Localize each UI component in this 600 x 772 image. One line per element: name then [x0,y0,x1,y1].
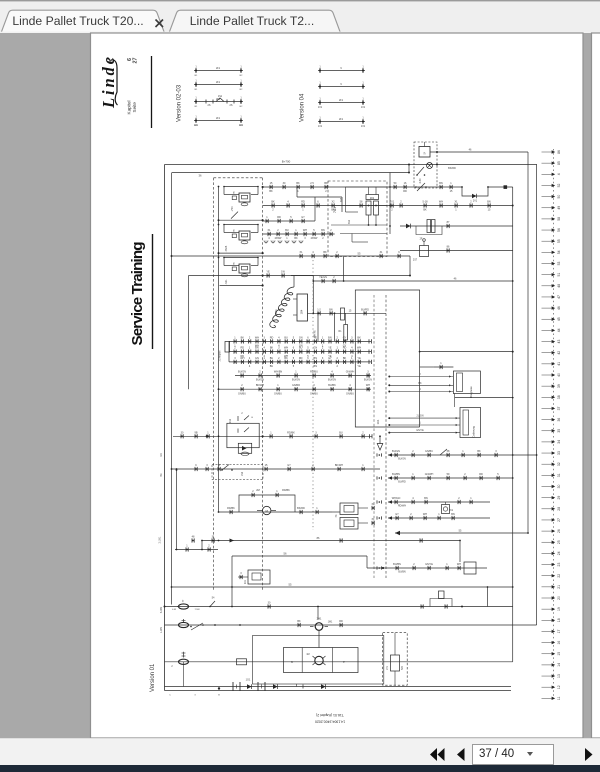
vertical x176.5 rows 470-549 [176,470,178,550]
svg-text:55: 55 [289,583,292,587]
svg-text:36: 36 [557,418,561,422]
svg-text:RD: RD [299,357,303,360]
svg-text:BK: BK [296,182,300,185]
version 02-03 wire row 2 [194,84,243,86]
1X1 connector pins [376,453,378,456]
junction on connector [262,186,264,188]
svg-text:Seite: Seite [132,102,137,113]
terminal 12 [542,686,552,688]
version 04 wire row 2 [318,86,365,88]
inner frame left vertical [171,173,173,605]
connector 9X1 dash-dot line [312,260,314,530]
svg-text:1M: 1M [306,654,309,656]
stub marks x183 [183,652,185,658]
svg-text:26: 26 [557,529,561,533]
wire row y281 long [313,280,512,282]
svg-text:23: 23 [557,563,561,567]
svg-text:RD/BU: RD/BU [310,371,318,374]
traction motor 2M1 top circle [315,623,323,631]
connector wire row y351.6 (dense) [229,351,371,353]
svg-text:BN/WH: BN/WH [256,384,265,387]
svg-text:Service Training: Service Training [129,242,146,346]
pump motor loop box [239,495,295,512]
relay 7K1 below row 502 [442,505,450,514]
svg-text:BK: BK [271,201,275,204]
svg-text:2F1: 2F1 [339,118,344,121]
svg-text:YE: YE [357,357,361,360]
svg-text:43: 43 [557,340,561,344]
svg-text:BN: BN [487,201,491,204]
terminal 41 [542,363,552,365]
fuse on row 662 [179,659,189,664]
main frame left vertical [164,165,166,691]
diode D2 bottom [273,684,278,689]
wire row y533 with arrow [395,532,528,534]
wire row y152 [430,151,528,153]
svg-text:42: 42 [557,351,561,355]
brake dashed box [383,633,408,686]
wire from coil to riser [291,275,313,277]
svg-text:BU: BU [299,347,303,350]
wire row y226 right [400,225,513,227]
svg-text:1Y1: 1Y1 [386,665,389,670]
version 02-03 wire row 1 [194,70,243,72]
wire row y469 [172,468,381,470]
terminal 58 [542,218,552,220]
svg-text:BU: BU [284,336,288,339]
diode D1 bottom [247,684,252,689]
svg-text:BN: BN [314,365,318,368]
svg-text:GY: GY [328,357,332,360]
vertical x232 down to bottom row [231,556,233,607]
bypass loop row 606 [430,599,452,607]
svg-text:7A2: 7A2 [348,219,351,224]
suppressor 7K box A [340,503,358,515]
svg-text:GN/WH: GN/WH [425,473,434,476]
svg-text:7X1: 7X1 [390,201,395,204]
svg-text:RD/BK: RD/BK [282,489,290,492]
vertical motor box to battery line [296,684,298,687]
hanging resistor to midrow1 [345,313,347,324]
svg-text:T16.01 (Kapitel 2): T16.01 (Kapitel 2) [316,713,344,717]
svg-text:WH: WH [439,201,443,204]
terminal 86 [542,151,552,153]
terminal 50 [542,196,552,198]
svg-text:2F1: 2F1 [339,99,344,102]
left bracket rows 341-362 [228,341,230,362]
riser x315 to step wire [314,197,316,221]
svg-text:YE: YE [266,271,270,274]
bypass loop y226 [416,226,442,235]
svg-text:2V1: 2V1 [473,200,478,203]
svg-text:Version 04: Version 04 [300,93,306,122]
svg-text:25: 25 [557,540,561,544]
wire Diagnose to coding box [454,394,456,408]
suppressor 7K box B [340,518,358,530]
terminal 18 [542,619,552,621]
svg-text:GN/WH: GN/WH [346,371,355,374]
terminal 55 [542,240,552,242]
junction blob y187 [504,185,508,189]
svg-text:BU: BU [270,357,274,360]
svg-text:BN: BN [424,497,428,500]
svg-text:BK: BK [331,209,335,212]
relay 1K2 coil diode [232,234,236,238]
svg-text:1M1: 1M1 [328,622,333,624]
terminal 21 [542,586,552,588]
svg-text:18: 18 [557,618,561,622]
left vertical x188.5 [188,276,190,390]
svg-text:1W1: 1W1 [274,309,278,315]
svg-text:GN/BU: GN/BU [274,392,282,395]
svg-text:BU/GN: BU/GN [238,371,246,374]
terminal 53 [542,263,552,265]
svg-text:-S21: -S21 [225,279,228,285]
svg-text:GN/BU: GN/BU [425,450,433,453]
svg-text:BU/RD: BU/RD [361,308,369,311]
relay 2K2 loop [227,423,259,447]
svg-text:27: 27 [557,518,561,522]
svg-text:2F1: 2F1 [216,81,221,84]
wire row y502 [388,501,490,503]
svg-text:53: 53 [557,262,561,266]
motor 1M1 armature [315,656,323,664]
svg-text:52: 52 [557,183,561,187]
bottom row y625 [165,624,537,626]
svg-text:41: 41 [557,362,561,366]
svg-text:12: 12 [557,685,561,689]
accessory dashed box [414,142,437,188]
bus jog at x409 [408,165,410,173]
svg-text:85: 85 [557,161,561,165]
relay 2K2 contacts above [237,416,239,421]
svg-text:RD: RD [277,216,281,219]
svg-text:11: 11 [557,696,561,700]
svg-text:WH: WH [357,347,361,350]
second bus line [172,172,410,174]
svg-text:GY: GY [287,464,291,467]
svg-text:2M: 2M [256,489,259,492]
svg-text:50: 50 [557,195,561,199]
svg-text:2K2: 2K2 [229,418,232,423]
vertical x419.6 [419,294,421,427]
svg-text:S-WR: S-WR [160,607,163,614]
terminal 26 [542,530,552,532]
vertical bus x390 [389,173,391,235]
svg-text:BU/BK: BU/BK [328,384,336,387]
svg-text:21: 21 [557,585,561,589]
switch 1S2 on row 187 [417,183,425,191]
svg-text:2A5: 2A5 [340,197,343,202]
svg-text:BK: BK [270,347,274,350]
coding box [460,408,481,438]
svg-text:1-WR: 1-WR [160,627,163,633]
relay 1K1 [224,186,258,188]
connector dashed pair left [373,295,375,578]
svg-text:WH: WH [255,336,259,339]
version 04 wire row 3 [318,102,365,104]
svg-text:45: 45 [557,317,561,321]
svg-text:BK: BK [418,382,422,385]
lamp 4H1 [427,163,433,169]
switch 7S1 on row 455 [440,449,447,455]
wires into coding box [389,417,460,419]
terminal 14 [542,664,552,666]
svg-text:1X1: 1X1 [361,106,366,109]
svg-text:BN: BN [439,182,443,185]
motor housing outer box [253,636,384,685]
svg-text:RD: RD [301,201,305,204]
terminal 15 [542,653,552,655]
svg-text:BU/GN: BU/GN [256,379,264,382]
svg-text:56: 56 [557,228,561,232]
switch 7S4 [231,212,238,219]
B+ top bus [165,164,538,166]
vertical x334.5 from row315 [334,313,336,341]
svg-text:WH/GN: WH/GN [392,497,401,500]
svg-text:WH: WH [240,357,244,360]
fuse on row 625 [179,622,189,627]
7A1 resistor block top [366,195,379,200]
sensor box row 568 [464,562,476,574]
terminal 19 [542,608,552,610]
terminal 24 [542,552,552,554]
svg-text:RD: RD [270,336,274,339]
svg-text:29: 29 [557,496,561,500]
svg-text:14: 14 [557,663,561,667]
svg-text:33: 33 [557,451,561,455]
terminal 37 [542,407,552,409]
terminal 22 [542,575,552,577]
terminal 4 [542,173,552,175]
svg-text:BN: BN [328,336,332,339]
right bus x528 [527,152,529,533]
svg-text:BK: BK [343,357,347,360]
svg-text:BK: BK [241,336,245,339]
svg-text:C: C [195,464,197,467]
svg-text:1B4: 1B4 [300,309,304,314]
svg-text:GN/BU: GN/BU [238,392,246,395]
svg-text:BU: BU [270,365,274,368]
svg-text:2S7: 2S7 [413,259,418,262]
junction on connector y275.5 [262,274,264,276]
terminal 38 [542,396,552,398]
svg-text:34: 34 [557,440,561,444]
svg-text:56: 56 [284,552,287,556]
switch 4S1 [417,167,424,175]
svg-text:RD/BK: RD/BK [227,507,235,510]
relay column bus [218,187,220,513]
svg-text:BK: BK [269,190,273,193]
terminal 85 [542,162,552,164]
svg-text:WH: WH [366,384,370,387]
wire row y549.5 short [175,549,218,551]
7A1 drop wire x343.6 [343,257,345,282]
wire row y397.6 to bus [455,397,513,399]
svg-text:WH/BN: WH/BN [274,371,283,374]
wire row y568 [367,567,487,569]
module box around connector [355,290,419,427]
relay module dashed box left [213,178,215,590]
motor assembly box [284,648,359,673]
svg-text:48: 48 [557,284,561,288]
diode 1V7 bypass loop [462,187,488,196]
svg-text:1X1: 1X1 [361,125,366,128]
svg-text:Kapitel: Kapitel [127,100,132,114]
svg-text:IVO: IVO [402,666,404,670]
svg-text:2L/GN: 2L/GN [417,415,424,418]
svg-text:BK/WH: BK/WH [335,464,343,467]
svg-text:BK: BK [323,251,327,254]
wire row y275.5 [189,275,411,277]
relay interconnect wire 2 [220,252,263,254]
svg-text:BU/GN: BU/GN [364,379,372,382]
connector wire row y389.2 [219,388,371,390]
terminal 25 [542,541,552,543]
svg-text:37: 37 [557,406,561,410]
svg-text:Version 01: Version 01 [150,663,156,692]
svg-text:WH: WH [457,563,461,566]
vertical x318 from row315 [317,313,319,341]
glow coil 1W1 [270,286,294,329]
svg-text:YE/GN: YE/GN [319,276,327,279]
svg-text:1G1: 1G1 [246,679,251,682]
wire row y313.3 sensor to connector [308,312,387,314]
terminal 46 [542,307,552,309]
terminal 49 [542,207,552,209]
svg-text:39: 39 [557,384,561,388]
7A1 resistor R1 [366,201,371,215]
svg-text:2.5: 2.5 [310,182,314,185]
terminal 32 [542,463,552,465]
svg-text:49: 49 [557,206,561,210]
terminal 29 [542,497,552,499]
svg-text:Linde Pallet Truck T2...: Linde Pallet Truck T2... [190,14,314,28]
svg-text:Version 02-03: Version 02-03 [177,84,183,122]
svg-text:RD: RD [160,453,163,457]
svg-text:2K5W: 2K5W [275,237,282,240]
fuse 10A left of rows [225,342,230,353]
bottom row y606 [165,606,513,608]
terminal 45 [542,318,552,320]
terminal 28 [542,508,552,510]
svg-text:BK/RD: BK/RD [448,167,456,170]
svg-text:GN/YE: GN/YE [425,563,433,566]
svg-text:BN: BN [451,513,455,516]
relay 2K3 bottom-left [248,570,270,584]
svg-text:1X1: 1X1 [318,125,323,128]
motor feed stub [317,607,319,620]
svg-text:4-M: 4-M [172,609,176,611]
svg-text:BU/BN: BU/BN [393,563,401,566]
svg-text:GY: GY [343,336,347,339]
svg-text:BK: BK [357,336,361,339]
svg-text:44: 44 [557,328,561,332]
connector 1X1 dashed line [385,295,387,578]
svg-text:17: 17 [557,629,561,633]
svg-text:BU: BU [285,229,289,232]
terminal 54 [542,251,552,253]
terminal 36 [542,419,552,421]
terminal 43 [542,341,552,343]
svg-text:BU/BN: BU/BN [392,473,400,476]
svg-text:RD: RD [343,347,347,350]
svg-text:BK: BK [477,450,481,453]
svg-text:Codierung: Codierung [473,426,476,438]
wire row y512 [219,511,333,513]
terminal 40 [542,374,552,376]
svg-text:38: 38 [557,395,561,399]
wire row y540 long [202,540,460,542]
version 02-03 wire row 3 [194,101,243,103]
svg-text:YE: YE [357,365,361,368]
wire row y205.5 [263,205,513,207]
vertical x460 to sensor box [459,541,461,563]
svg-text:7K1: 7K1 [449,509,454,512]
svg-text:24: 24 [557,551,561,555]
svg-text:BN: BN [321,229,325,232]
fuse 1F1 [179,604,189,609]
svg-text:1S3: 1S3 [241,471,244,476]
svg-text:22: 22 [557,574,561,578]
bottom border line B [165,690,512,692]
switch row 625 [191,623,203,630]
svg-text:Linde Pallet Truck T20...: Linde Pallet Truck T20... [12,14,143,28]
svg-text:2K5W: 2K5W [311,237,318,240]
terminal 42 [542,352,552,354]
svg-text:RD: RD [240,347,244,350]
version 04 wire row 1 [318,70,365,72]
relay interconnect wire 1 [220,219,263,221]
svg-text:32: 32 [557,462,561,466]
bottom row y661.8 [165,661,513,663]
wire jog to Diagnose [434,366,454,368]
wires into Diagnose [389,376,453,378]
svg-text:1W: 1W [281,271,285,274]
wire row y221 [263,220,315,222]
wire row y250.5 right [400,250,513,252]
svg-text:RD/WH: RD/WH [398,505,406,508]
svg-text:Diagnose: Diagnose [469,386,473,398]
terminal 35 [542,430,552,432]
version 02-03 wire row 4 [194,120,243,122]
switch 1S3 [222,465,229,471]
svg-text:WH: WH [303,229,307,232]
component 2K7 [420,246,429,257]
svg-text:2R2: 2R2 [370,198,375,200]
relay 2K2 coil box [238,443,251,453]
terminal 20 [542,597,552,599]
svg-text:30: 30 [557,485,561,489]
svg-text:BU/GN: BU/GN [328,379,336,382]
svg-text:16: 16 [557,641,561,645]
jog x419 to diagnostics [420,366,434,368]
wire row y187 [263,186,462,188]
terminal 48 [542,285,552,287]
svg-text:1X1: 1X1 [376,419,380,424]
svg-text:7K: 7K [335,514,338,517]
svg-text:RD: RD [479,473,483,476]
wire row y256 long [172,255,411,257]
svg-text:B+700: B+700 [282,160,291,164]
terminal 16 [542,642,552,644]
terminal 52 [542,184,552,186]
svg-text:WH: WH [284,347,288,350]
connector wire row y341.4 (dense) [229,340,371,342]
dashed switch box on row 470 [212,465,263,480]
svg-text:55: 55 [557,239,561,243]
connector wire row y375.5 [235,375,371,377]
